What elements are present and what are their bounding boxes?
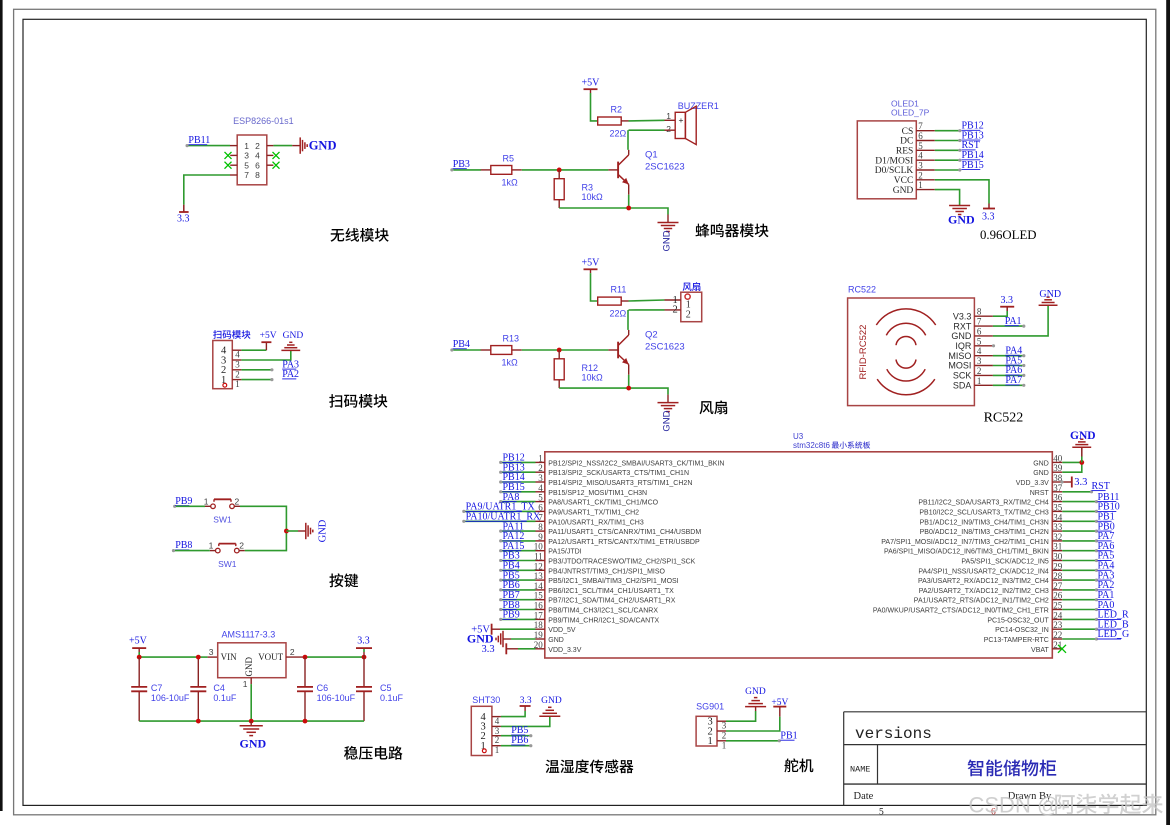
svg-text:C7: C7: [151, 683, 163, 693]
svg-text:PB14/SPI2_MISO/USART3_RTS/TIM1: PB14/SPI2_MISO/USART3_RTS/TIM1_CH2N: [548, 480, 692, 487]
svg-text:1: 1: [235, 379, 240, 389]
svg-text:+5V: +5V: [771, 698, 788, 708]
svg-text:SCK: SCK: [953, 371, 972, 381]
svg-text:3.3: 3.3: [1001, 295, 1014, 306]
svg-text:versions: versions: [855, 725, 932, 743]
svg-text:GND: GND: [1033, 470, 1049, 477]
svg-text:C4: C4: [213, 683, 225, 693]
svg-text:C6: C6: [317, 683, 329, 693]
svg-text:R11: R11: [611, 284, 627, 294]
svg-text:SG901: SG901: [696, 701, 724, 711]
svg-text:+5V: +5V: [260, 331, 277, 341]
svg-text:RFID-RC522: RFID-RC522: [858, 325, 869, 380]
svg-text:PB12/SPI2_NSS/I2C2_SMBAI/USART: PB12/SPI2_NSS/I2C2_SMBAI/USART3_CK/TIM1_…: [548, 460, 724, 467]
svg-text:1: 1: [708, 736, 713, 747]
svg-text:6: 6: [255, 160, 260, 170]
svg-text:7: 7: [918, 121, 923, 131]
svg-text:PB11/I2C2_SDA/USART3_RX/TIM2_C: PB11/I2C2_SDA/USART3_RX/TIM2_CH4: [918, 500, 1049, 507]
svg-text:SHT30: SHT30: [472, 695, 500, 705]
svg-text:RES: RES: [896, 147, 913, 157]
svg-text:PB9: PB9: [503, 610, 520, 621]
svg-text:3: 3: [235, 360, 240, 370]
svg-text:C5: C5: [380, 683, 392, 693]
svg-text:1: 1: [666, 111, 671, 121]
svg-text:0.1uF: 0.1uF: [380, 693, 404, 703]
svg-text:VDD_3.3V: VDD_3.3V: [1016, 480, 1049, 487]
svg-text:SDA: SDA: [953, 381, 972, 391]
svg-text:GND: GND: [548, 637, 564, 644]
svg-text:4: 4: [235, 350, 240, 360]
svg-text:R2: R2: [611, 104, 623, 114]
svg-text:PB1/ADC12_IN9/TIM3_CH4/TIM1_CH: PB1/ADC12_IN9/TIM3_CH4/TIM1_CH3N: [920, 519, 1049, 526]
svg-text:PA7/SPI1_MOSI/ADC12_IN7/TIM3_C: PA7/SPI1_MOSI/ADC12_IN7/TIM3_CH2/TIM1_CH…: [881, 539, 1049, 546]
svg-text:V3.3: V3.3: [953, 311, 972, 321]
svg-text:8: 8: [977, 307, 982, 317]
svg-text:3.3: 3.3: [481, 644, 494, 655]
svg-text:2: 2: [235, 369, 240, 379]
svg-text:2: 2: [686, 309, 691, 320]
svg-text:1: 1: [977, 376, 982, 386]
svg-text:+5V: +5V: [582, 78, 601, 89]
svg-text:GND: GND: [1070, 430, 1096, 442]
svg-text:R13: R13: [503, 334, 520, 344]
svg-text:0.96OLED: 0.96OLED: [980, 228, 1037, 242]
svg-text:CSDN @: CSDN @: [969, 792, 1060, 817]
svg-text:2: 2: [977, 366, 982, 376]
svg-text:PC14-OSC32_IN: PC14-OSC32_IN: [995, 627, 1049, 634]
svg-text:10kΩ: 10kΩ: [582, 372, 604, 382]
svg-text:PB15/SP12_MOSI/TIM1_CH3N: PB15/SP12_MOSI/TIM1_CH3N: [548, 490, 647, 497]
svg-text:Date: Date: [854, 791, 874, 802]
svg-text:3: 3: [918, 161, 923, 171]
svg-text:PB5/I2C1_SMBAI/TIM3_CH2/SPI1_M: PB5/I2C1_SMBAI/TIM3_CH2/SPI1_MOSI: [548, 578, 678, 585]
svg-text:VOUT: VOUT: [258, 652, 283, 662]
svg-text:2: 2: [239, 541, 244, 551]
svg-text:3.3: 3.3: [982, 212, 995, 223]
svg-text:RXT: RXT: [953, 321, 972, 331]
svg-text:PA5/SPI1_SCK/ADC12_IN5: PA5/SPI1_SCK/ADC12_IN5: [961, 559, 1049, 566]
svg-text:4: 4: [918, 151, 923, 161]
svg-text:GND: GND: [951, 331, 972, 341]
svg-text:GND: GND: [244, 656, 254, 676]
svg-text:PA11/USART1_CTS/CANRX/TIM1_CH4: PA11/USART1_CTS/CANRX/TIM1_CH4/USBDM: [548, 529, 701, 536]
svg-text:R5: R5: [503, 154, 515, 164]
svg-text:DC: DC: [900, 137, 913, 147]
svg-text:PB9/TIM4_CHR/I2C1_SDA/CANTX: PB9/TIM4_CHR/I2C1_SDA/CANTX: [548, 617, 659, 624]
svg-text:106-10uF: 106-10uF: [151, 693, 190, 703]
svg-text:GND: GND: [240, 737, 267, 751]
svg-text:PA6/SPI1_MISO/ADC12_IN6/TIM3_C: PA6/SPI1_MISO/ADC12_IN6/TIM3_CH1/TIM1_BK…: [884, 549, 1049, 556]
svg-text:PA15/JTDI: PA15/JTDI: [548, 549, 581, 556]
svg-text:1: 1: [481, 741, 486, 752]
svg-text:PB13/SPI2_SCK/USART3_CTS/TIM1_: PB13/SPI2_SCK/USART3_CTS/TIM1_CH1N: [548, 470, 689, 477]
svg-text:+: +: [679, 115, 684, 125]
svg-text:5: 5: [918, 141, 923, 151]
svg-text:U3: U3: [793, 432, 804, 441]
svg-text:3: 3: [977, 356, 982, 366]
svg-text:RC522: RC522: [848, 285, 876, 295]
svg-text:2: 2: [290, 647, 295, 657]
svg-text:GND: GND: [283, 331, 304, 341]
svg-text:Q1: Q1: [645, 150, 658, 161]
svg-text:GND: GND: [318, 519, 329, 542]
svg-text:1: 1: [209, 541, 214, 551]
svg-text:RC522: RC522: [984, 411, 1024, 426]
svg-text:2: 2: [918, 170, 923, 180]
svg-text:2: 2: [673, 305, 678, 316]
svg-text:5: 5: [977, 336, 982, 346]
svg-text:7: 7: [977, 317, 982, 327]
svg-text:22Ω: 22Ω: [610, 129, 627, 139]
svg-text:PC13-TAMPER-RTC: PC13-TAMPER-RTC: [984, 637, 1049, 644]
svg-text:3: 3: [244, 151, 249, 161]
svg-text:VBAT: VBAT: [1031, 647, 1049, 654]
svg-text:GND: GND: [309, 139, 337, 153]
svg-text:2SC1623: 2SC1623: [645, 162, 685, 173]
svg-text:3: 3: [722, 721, 727, 731]
svg-text:VIN: VIN: [221, 652, 237, 662]
svg-text:7: 7: [244, 170, 249, 180]
svg-text:GND: GND: [1039, 289, 1061, 300]
svg-text:BUZZER1: BUZZER1: [678, 101, 719, 111]
svg-text:VDD_3.3V: VDD_3.3V: [548, 647, 581, 654]
svg-text:1: 1: [918, 180, 923, 190]
svg-text:2: 2: [495, 735, 500, 745]
svg-text:4: 4: [495, 716, 500, 726]
svg-text:6: 6: [977, 326, 982, 336]
svg-text:0.1uF: 0.1uF: [213, 693, 237, 703]
svg-text:+5V: +5V: [582, 258, 601, 269]
svg-text:1: 1: [495, 745, 500, 755]
svg-text:GND: GND: [662, 410, 673, 431]
svg-text:GND: GND: [1033, 460, 1049, 467]
svg-text:PA12/USART1_RTS/CANTX/TIM1_ETR: PA12/USART1_RTS/CANTX/TIM1_ETR/USBDP: [548, 539, 700, 546]
svg-text:PA0/WKUP/USART2_CTS/ADC12_IN0/: PA0/WKUP/USART2_CTS/ADC12_IN0/TIM2_CH1_E…: [873, 608, 1049, 615]
svg-text:D1/MOSI: D1/MOSI: [875, 156, 913, 166]
svg-text:1: 1: [243, 679, 248, 689]
svg-text:1: 1: [722, 740, 727, 750]
svg-text:SW1: SW1: [218, 559, 237, 569]
svg-text:IQR: IQR: [955, 341, 972, 351]
svg-text:GND: GND: [948, 213, 975, 227]
svg-text:R12: R12: [582, 363, 599, 373]
svg-text:6: 6: [918, 131, 923, 141]
svg-text:stm32c8t6: stm32c8t6: [793, 441, 830, 450]
svg-text:22Ω: 22Ω: [610, 309, 627, 319]
svg-text:2: 2: [722, 731, 727, 741]
svg-text:PB3/JTDO/TRACESWO/TIM2_CH2/SPI: PB3/JTDO/TRACESWO/TIM2_CH2/SPI1_SCK: [548, 559, 695, 566]
svg-text:3: 3: [209, 647, 214, 657]
svg-text:106-10uF: 106-10uF: [317, 693, 356, 703]
svg-text:1kΩ: 1kΩ: [502, 178, 519, 188]
svg-text:CS: CS: [902, 127, 914, 137]
svg-text:NAME: NAME: [850, 765, 870, 775]
svg-text:GND: GND: [893, 186, 914, 196]
svg-text:PA8/USART1_CK/TIM1_CH1/MCO: PA8/USART1_CK/TIM1_CH1/MCO: [548, 500, 658, 507]
svg-text:NRST: NRST: [1030, 490, 1050, 497]
svg-text:1: 1: [204, 496, 209, 506]
svg-text:GND: GND: [745, 687, 766, 697]
svg-text:R3: R3: [582, 183, 594, 193]
svg-text:PB10/I2C2_SCL/USART3_TX/TIM2_C: PB10/I2C2_SCL/USART3_TX/TIM2_CH3: [919, 510, 1049, 517]
svg-text:PB0/ADC12_IN8/TIM3_CH3/TIM1_CH: PB0/ADC12_IN8/TIM3_CH3/TIM1_CH2N: [920, 529, 1049, 536]
svg-text:PA4/SPI1_NSS/USART2_CK/ADC12_I: PA4/SPI1_NSS/USART2_CK/ADC12_IN4: [918, 568, 1049, 575]
svg-text:PA10/USART1_RX/TIM1_CH3: PA10/USART1_RX/TIM1_CH3: [548, 519, 644, 526]
svg-text:PC15-OSC32_OUT: PC15-OSC32_OUT: [987, 617, 1049, 624]
svg-text:8: 8: [255, 170, 260, 180]
svg-text:PB6/I2C1_SCL/TIM4_CH1/USART1_T: PB6/I2C1_SCL/TIM4_CH1/USART1_TX: [548, 588, 674, 595]
svg-text:PB4/JNTRST/TIM3_CH1/SPI1_MISO: PB4/JNTRST/TIM3_CH1/SPI1_MISO: [548, 568, 665, 575]
svg-text:PA9/USART1_TX/TIM1_CH2: PA9/USART1_TX/TIM1_CH2: [548, 510, 639, 517]
svg-text:2: 2: [255, 141, 260, 151]
svg-text:ESP8266-01s1: ESP8266-01s1: [233, 116, 294, 126]
svg-text:VDD_5V: VDD_5V: [548, 627, 576, 634]
svg-text:AMS1117-3.3: AMS1117-3.3: [222, 630, 276, 640]
svg-text:VCC: VCC: [894, 176, 914, 186]
svg-text:MOSI: MOSI: [948, 361, 971, 371]
svg-text:OLED_7P: OLED_7P: [891, 107, 930, 117]
svg-text:4: 4: [977, 346, 982, 356]
svg-text:2SC1623: 2SC1623: [645, 342, 685, 353]
svg-text:3.3: 3.3: [357, 635, 370, 646]
svg-text:5: 5: [244, 160, 249, 170]
svg-text:+5V: +5V: [129, 635, 148, 646]
svg-text:PA1/USART2_RTS/ADC12_IN1/TIM2_: PA1/USART2_RTS/ADC12_IN1/TIM2_CH2: [914, 598, 1049, 605]
svg-text:2: 2: [666, 124, 671, 134]
svg-text:D0/SCLK: D0/SCLK: [875, 166, 914, 176]
svg-text:PB8/TIM4_CH3/I2C1_SCL/CANRX: PB8/TIM4_CH3/I2C1_SCL/CANRX: [548, 608, 658, 615]
svg-text:3.3: 3.3: [1074, 477, 1087, 488]
svg-text:SW1: SW1: [213, 515, 232, 525]
svg-text:10kΩ: 10kΩ: [582, 192, 604, 202]
svg-text:PA2/USART2_TX/ADC12_IN2/TIM2_C: PA2/USART2_TX/ADC12_IN2/TIM2_CH3: [919, 588, 1049, 595]
svg-text:PB7/I2C1_SDA/TIM4_CH2/USART1_R: PB7/I2C1_SDA/TIM4_CH2/USART1_RX: [548, 598, 675, 605]
svg-text:3.3: 3.3: [520, 696, 532, 706]
svg-text:1: 1: [244, 141, 249, 151]
svg-text:Q2: Q2: [645, 330, 658, 341]
svg-text:2: 2: [235, 496, 240, 506]
svg-text:3.3: 3.3: [177, 214, 190, 225]
svg-text:1kΩ: 1kΩ: [502, 358, 519, 368]
svg-text:PA3/USART2_RX/ADC12_IN3/TIM2_C: PA3/USART2_RX/ADC12_IN3/TIM2_CH4: [918, 578, 1049, 585]
svg-text:GND: GND: [541, 696, 562, 706]
svg-text:5: 5: [879, 808, 884, 818]
svg-text:MISO: MISO: [948, 351, 971, 361]
svg-text:4: 4: [255, 151, 260, 161]
svg-text:PB8: PB8: [175, 540, 192, 551]
svg-text:GND: GND: [662, 230, 673, 251]
